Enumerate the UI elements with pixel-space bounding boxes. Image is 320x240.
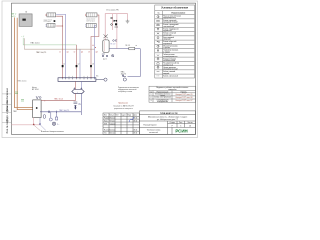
svg-text:Манометр показыв.: Манометр показыв. [163, 45, 178, 47]
svg-text:к2: к2 [78, 64, 80, 66]
svg-text:08.14: 08.14 [134, 133, 138, 135]
svg-text:разрешенная мощность: разрешенная мощность [114, 108, 133, 110]
svg-text:СОУ отопл.: СОУ отопл. [86, 20, 95, 22]
svg-text:в оправе: в оправе [163, 52, 170, 54]
svg-text:08.14: 08.14 [134, 118, 138, 120]
svg-text:ПВС 2х1,5: ПВС 2х1,5 [18, 80, 27, 82]
svg-text:Инв.№ подл.: Инв.№ подл. [6, 118, 9, 134]
svg-text:Примечание: Примечание [118, 103, 128, 105]
svg-text:РСИН: РСИН [175, 129, 187, 134]
svg-text:Волков: Волков [110, 133, 115, 135]
svg-text:ПВС 3х0,75: ПВС 3х0,75 [59, 110, 69, 112]
svg-text:циркуляционные: циркуляционные [163, 17, 176, 19]
svg-text:Иванов: Иванов [110, 118, 115, 120]
svg-text:16: 16 [189, 126, 191, 128]
svg-text:комплекта: комплекта [168, 89, 176, 91]
svg-text:н1: н1 [59, 51, 61, 53]
svg-text:№: № [150, 90, 152, 93]
svg-text:оборудования: оборудования [157, 101, 168, 103]
svg-text:ПВС 2х1,5: ПВС 2х1,5 [31, 42, 40, 44]
svg-text:н3: н3 [88, 51, 90, 53]
svg-text:ВР 1/2Н: ВР 1/2Н [32, 89, 39, 91]
svg-text:ГУВВ.АБВГ.00-ТМ: ГУВВ.АБВГ.00-ТМ [160, 112, 178, 115]
svg-text:ул. Набережная дом 7 Г: ул. Набережная дом 7 Г [157, 119, 178, 121]
svg-text:ПВС 2х0,75: ПВС 2х0,75 [36, 52, 46, 54]
svg-text:+ t°: + t° [21, 35, 24, 38]
svg-text:Смотри ГОСТ лист 05: Смотри ГОСТ лист 05 [175, 94, 192, 96]
svg-text:Смотри ГОСТ лист 07: Смотри ГОСТ лист 07 [175, 100, 192, 102]
svg-text:3х0,75: 3х0,75 [121, 74, 126, 76]
svg-text:№: № [157, 12, 159, 15]
svg-text:по проекту и схеме: по проекту и схеме [118, 91, 132, 93]
svg-text:Стадия: Стадия [169, 122, 175, 124]
svg-text:Смотри ГОСТ лист 06: Смотри ГОСТ лист 06 [175, 97, 192, 99]
svg-text:Ду: Ду [79, 104, 81, 106]
svg-text:н2: н2 [74, 51, 76, 53]
svg-text:Установка РБ: Установка РБ [106, 9, 119, 11]
svg-text:Листов: Листов [187, 122, 192, 124]
svg-text:к3: к3 [92, 64, 94, 66]
svg-text:Примеч.: Примеч. [181, 91, 188, 93]
svg-text:Воздухоотводчик: Воздухоотводчик [163, 58, 176, 60]
svg-text:Наименование: Наименование [171, 13, 185, 15]
svg-text:Лист: Лист [116, 115, 120, 117]
svg-text:Схема электрическая: Схема электрическая [154, 97, 171, 99]
svg-text:5: 5 [180, 126, 181, 128]
svg-text:ГИП: ГИП [104, 123, 107, 125]
svg-text:Насосы повысительные: Насосы повысительные [163, 15, 181, 17]
svg-text:Сидоров: Сидоров [110, 123, 116, 125]
svg-text:Изм: Изм [104, 115, 107, 117]
svg-text:ГВ 1/2: ГВ 1/2 [110, 43, 115, 45]
svg-text:с краном: с краном [163, 47, 170, 49]
svg-text:Гибкая вставка: Гибкая вставка [163, 54, 174, 56]
svg-text:антивибрационная: антивибрационная [163, 56, 177, 58]
svg-text:Рабочий проект: Рабочий проект [143, 124, 156, 127]
svg-text:насос поз.1: насос поз.1 [44, 19, 53, 21]
svg-text:Лист: Лист [179, 122, 183, 124]
svg-text:+: + [77, 91, 78, 93]
svg-text:Разраб: Разраб [104, 118, 109, 120]
svg-text:1: 1 [151, 94, 152, 96]
svg-text:Разрешение использования: Разрешение использования [118, 87, 139, 89]
svg-text:СОУ вент.: СОУ вент. [44, 21, 52, 23]
svg-text:Клапан предохранит.: Клапан предохранит. [163, 28, 179, 30]
svg-text:Ду 15: Ду 15 [103, 58, 107, 60]
svg-text:08.14: 08.14 [134, 129, 138, 131]
svg-text:2: 2 [151, 97, 152, 99]
svg-text:Термометр показыв.: Термометр показыв. [163, 50, 179, 52]
svg-text:Подп: Подп [128, 115, 132, 117]
svg-text:к1: к1 [63, 64, 65, 66]
svg-text:ГВ 15: ГВ 15 [125, 45, 130, 47]
svg-text:3: 3 [151, 100, 152, 102]
svg-text:Условные обозначения: Условные обозначения [161, 7, 188, 10]
svg-text:Датчик давления: Датчик давления [163, 67, 176, 69]
svg-text:Кол.уч: Кол.уч [110, 115, 115, 117]
svg-text:Внешние батареи питания: Внешние батареи питания [41, 131, 64, 133]
svg-text:котельной: котельной [149, 131, 158, 134]
svg-text:Пров.: Пров. [104, 120, 109, 122]
svg-text:Петров: Петров [110, 120, 115, 122]
svg-text:ПВ2: ПВ2 [13, 111, 17, 113]
svg-text:ПВС 3х1,5: ПВС 3х1,5 [54, 99, 63, 101]
svg-text:Козлова: Козлова [110, 129, 116, 131]
svg-text:08.14: 08.14 [134, 120, 138, 122]
svg-text:Дата: Дата [134, 115, 137, 117]
